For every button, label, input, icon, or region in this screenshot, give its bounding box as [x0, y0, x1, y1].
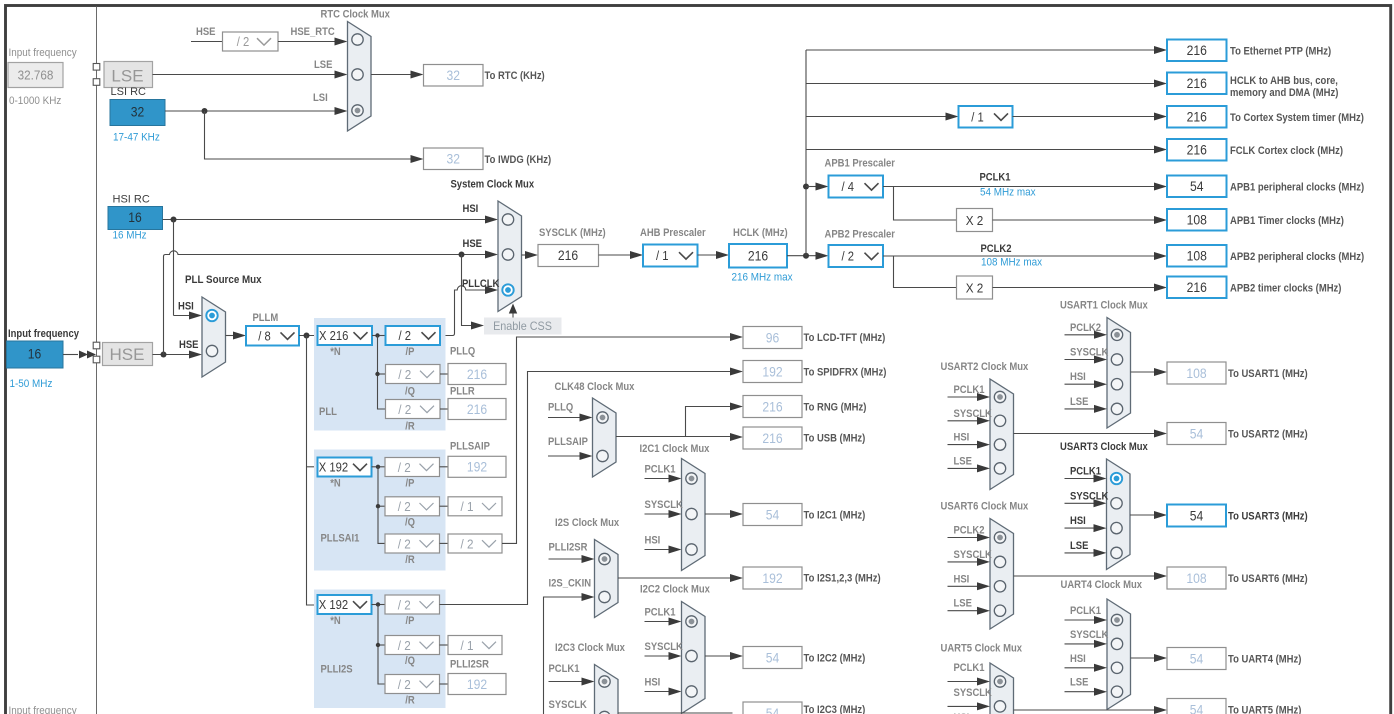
HSI RC source box 16 — [108, 207, 163, 230]
svg-text:HSE: HSE — [463, 238, 483, 250]
dropdown PLL /R — [386, 400, 441, 419]
svg-text:108: 108 — [1187, 213, 1207, 228]
junction PLL internal — [375, 333, 379, 337]
mux USART6 Clock Mux — [990, 519, 1014, 630]
dropdown PLLI2S /R — [385, 675, 440, 694]
wire to Ethernet PTP — [806, 49, 1156, 51]
value box 54 (To USART2 (MHz)) — [1167, 423, 1226, 445]
svg-text:/R: /R — [405, 421, 415, 433]
svg-text:HSI: HSI — [1070, 653, 1086, 665]
LSI RC source box 32 — [110, 100, 165, 126]
svg-text:X 192: X 192 — [319, 598, 348, 612]
mux System Clock Mux — [498, 201, 522, 312]
svg-text:To I2S1,2,3 (MHz): To I2S1,2,3 (MHz) — [804, 573, 881, 585]
svg-text:/P: /P — [406, 615, 415, 627]
svg-text:216: 216 — [762, 399, 782, 414]
wire HSI stub (USART1 Clock Mux) — [1065, 383, 1097, 385]
svg-text:X 192: X 192 — [319, 461, 348, 475]
svg-text:SYSCLK: SYSCLK — [954, 687, 992, 699]
value box HCLK 216 — [729, 244, 787, 268]
svg-text:54: 54 — [766, 706, 780, 714]
wire to Cortex divider — [806, 116, 948, 118]
wire HSI stub to I2C1 pin3 — [645, 549, 672, 551]
value box To USB 216 — [743, 427, 802, 449]
svg-text:HSE_RTC: HSE_RTC — [291, 26, 335, 38]
value box 54 (To USART3 (MHz)) — [1167, 505, 1226, 527]
wire PLLI2S Q to ext divider — [440, 644, 449, 646]
handle LSE bottom — [93, 79, 100, 86]
wire SYSCLK stub (UART5 Clock Mux) — [948, 705, 980, 707]
svg-text:16: 16 — [128, 210, 142, 225]
svg-text:PLLSAIP: PLLSAIP — [450, 441, 490, 453]
svg-text:To USART1 (MHz): To USART1 (MHz) — [1228, 368, 1308, 380]
wire AHB to HCLK — [698, 254, 719, 256]
svg-text:LSE: LSE — [954, 598, 972, 610]
wire RTC mux output to RTC box — [371, 74, 413, 76]
svg-text:X 216: X 216 — [319, 329, 348, 343]
svg-text:To UART4 (MHz): To UART4 (MHz) — [1228, 654, 1302, 666]
svg-text:HSI: HSI — [178, 301, 194, 313]
junction HSE split — [161, 352, 167, 358]
svg-text:CLK48 Clock Mux: CLK48 Clock Mux — [555, 381, 636, 393]
wire USART1 Clock Mux output — [1131, 371, 1157, 373]
svg-text:To Cortex System timer (MHz): To Cortex System timer (MHz) — [1230, 112, 1364, 124]
svg-text:Input frequency: Input frequency — [8, 328, 80, 340]
svg-text:APB2 timer clocks (MHz): APB2 timer clocks (MHz) — [1230, 283, 1342, 295]
svg-text:USART2 Clock Mux: USART2 Clock Mux — [941, 361, 1030, 373]
dropdown PLLSAI Q ext /1 — [448, 497, 502, 516]
value box To I2C3 54 — [743, 702, 802, 714]
svg-text:54: 54 — [1190, 508, 1204, 523]
wire PLLI2S internal vertical — [378, 605, 385, 685]
svg-text:SYSCLK: SYSCLK — [1070, 490, 1108, 502]
wire PLL Q to box — [440, 373, 448, 375]
svg-text:216 MHz max: 216 MHz max — [732, 272, 794, 284]
svg-text:HSE: HSE — [179, 339, 199, 351]
wire PCLK2 stub (USART1 Clock Mux) — [1065, 334, 1097, 336]
left rail vertical line — [96, 7, 98, 714]
svg-text:HSE: HSE — [110, 345, 145, 364]
wire HCLK bus vertical — [805, 50, 807, 256]
value box To IWDG 32 — [424, 148, 484, 170]
svg-text:54: 54 — [1190, 426, 1204, 441]
svg-text:UART4 Clock Mux: UART4 Clock Mux — [1061, 579, 1143, 591]
dropdown PLLM /8 — [246, 326, 299, 346]
svg-text:Enable CSS: Enable CSS — [493, 319, 552, 333]
wire PLLSAI P to box — [440, 466, 449, 468]
svg-text:96: 96 — [766, 330, 780, 345]
value box 54 (To UART4 (MHz)) — [1167, 648, 1226, 670]
wire HSE to PLL source mux pin2 — [153, 354, 192, 356]
dropdown /2 RTC divider — [223, 32, 279, 51]
input box 32.768 — [8, 63, 63, 88]
svg-text:SYSCLK: SYSCLK — [954, 549, 992, 561]
wire PLLSAIP stub to CLK48 pin2 — [548, 455, 582, 457]
wire PLLSAI internal vertical — [378, 467, 385, 544]
wire HSE_RTC to RTC mux pin1 — [278, 41, 337, 43]
wire PCLK1 stub (USART2 Clock Mux) — [948, 396, 980, 398]
svg-text:USART1 Clock Mux: USART1 Clock Mux — [1060, 300, 1149, 312]
value box 216 (APB2 timer clocks (MHz)) — [1167, 277, 1227, 299]
wire PLLI2S P to SPDIFRX — [440, 372, 733, 605]
svg-text:APB1 Timer clocks (MHz): APB1 Timer clocks (MHz) — [1230, 215, 1344, 227]
wire USART3 Clock Mux output — [1130, 514, 1157, 516]
wire PLL N to P — [372, 335, 386, 337]
wire SYSCLK stub (UART4 Clock Mux) — [1065, 643, 1097, 645]
svg-text:LSE: LSE — [1070, 540, 1088, 552]
svg-text:To Ethernet PTP (MHz): To Ethernet PTP (MHz) — [1230, 46, 1331, 58]
dropdown PLLSAI /P — [385, 458, 440, 477]
value box To RNG 216 — [743, 396, 802, 418]
svg-text:16: 16 — [28, 347, 42, 362]
X2 box APB1 — [957, 209, 993, 232]
dropdown PLLI2S xN X 192 — [318, 595, 372, 614]
junction PLLI2S internal — [376, 602, 380, 606]
svg-text:HSE: HSE — [196, 26, 216, 38]
svg-text:To SPIDFRX (MHz): To SPIDFRX (MHz) — [804, 367, 887, 379]
dropdown APB2 /2 — [829, 245, 884, 267]
svg-text:*N: *N — [330, 478, 341, 490]
value box PLLI2SR 192 — [448, 674, 506, 695]
dropdown PLL /P — [386, 326, 441, 345]
svg-text:HSI RC: HSI RC — [113, 194, 150, 206]
svg-text:/ 1: / 1 — [971, 110, 984, 124]
wire LSE stub (UART4 Clock Mux) — [1065, 691, 1097, 693]
svg-text:LSE: LSE — [314, 59, 332, 71]
mux USART1 Clock Mux — [1107, 318, 1131, 429]
svg-text:216: 216 — [467, 402, 487, 417]
junction LSI split — [202, 108, 208, 114]
wire LSE stub (USART3 Clock Mux) — [1065, 552, 1097, 554]
mux I2S Clock Mux — [595, 540, 619, 618]
mux I2C1 Clock Mux — [682, 459, 706, 571]
svg-text:216: 216 — [558, 248, 578, 263]
dropdown PLLSAI /R — [385, 534, 440, 553]
wire PLLSAI R to LCD-TFT — [502, 337, 733, 543]
svg-text:SYSCLK: SYSCLK — [645, 499, 683, 511]
svg-text:LSE: LSE — [1070, 677, 1088, 689]
svg-text:To USART2 (MHz): To USART2 (MHz) — [1228, 429, 1308, 441]
wire PLL source mux output to PLLM — [226, 335, 236, 337]
svg-text:AHB Prescaler: AHB Prescaler — [640, 227, 706, 239]
svg-text:HSI: HSI — [954, 432, 970, 444]
svg-text:PCLK2: PCLK2 — [981, 243, 1012, 255]
value box To I2C1 54 — [743, 504, 802, 526]
wire PLLI2SR stub to I2S pin1 — [549, 558, 585, 560]
wire LSE stub (USART1 Clock Mux) — [1065, 408, 1097, 410]
wire to APB1 X2 — [894, 187, 957, 221]
svg-text:HSI: HSI — [1070, 515, 1086, 527]
value box To RTC 32 — [424, 65, 484, 87]
wire to APB2 X2 — [894, 256, 957, 288]
svg-text:/ 2: / 2 — [398, 536, 411, 551]
wire HSI to System mux pin1 — [163, 219, 488, 221]
wire PLLCLK to system mux pin3 with hop — [440, 286, 488, 336]
svg-text:216: 216 — [1187, 143, 1207, 158]
svg-text:To USART3 (MHz): To USART3 (MHz) — [1228, 511, 1308, 523]
dropdown PLLI2S Q ext /1 — [448, 636, 502, 655]
svg-text:HSI: HSI — [463, 203, 479, 215]
svg-text:memory and DMA (MHz): memory and DMA (MHz) — [1230, 87, 1339, 99]
value box 54 (To UART5 (MHz)) — [1167, 699, 1226, 714]
arrow Enable CSS to mux — [512, 312, 514, 318]
wire SYSCLK to AHB prescaler — [599, 254, 633, 256]
svg-text:/ 4: / 4 — [842, 180, 855, 194]
svg-text:54: 54 — [766, 507, 780, 522]
wire PCLK1 stub to I2C3 pin1 — [549, 681, 585, 683]
svg-text:PLL: PLL — [319, 406, 337, 418]
junction HCLK bus — [803, 253, 809, 259]
svg-text:/ 1: / 1 — [656, 249, 669, 263]
svg-text:16 MHz: 16 MHz — [113, 230, 147, 242]
svg-text:HSI: HSI — [645, 535, 661, 547]
mux I2C2 Clock Mux — [682, 602, 706, 714]
svg-text:192: 192 — [762, 364, 782, 379]
wire SYSCLK stub (USART3 Clock Mux) — [1065, 502, 1097, 504]
value box PLLQ 216 — [448, 364, 506, 385]
svg-text:216: 216 — [467, 367, 487, 382]
svg-text:PLLQ: PLLQ — [450, 346, 476, 358]
svg-text:To UART5 (MHz): To UART5 (MHz) — [1228, 705, 1302, 714]
wire PLLSAI N to P — [372, 466, 386, 468]
svg-text:/R: /R — [405, 695, 415, 707]
svg-text:PLLI2S: PLLI2S — [321, 664, 353, 676]
dropdown PLLSAI xN X 192 — [318, 458, 372, 477]
wire I2S output — [618, 577, 733, 579]
svg-text:/ 2: / 2 — [398, 460, 411, 475]
svg-text:LSE: LSE — [111, 67, 143, 86]
svg-text:PLLI2SR: PLLI2SR — [450, 659, 489, 671]
wire UART4 Clock Mux output — [1131, 657, 1157, 659]
wire HSE vertical up to system mux with hop over HSI — [164, 251, 488, 355]
value box 216 (To Ethernet PTP (MHz)) — [1167, 40, 1227, 62]
panel PLLI2S — [314, 590, 446, 709]
wire CLK48 output to USB and RNG — [616, 407, 733, 437]
svg-text:I2S_CKIN: I2S_CKIN — [549, 578, 592, 590]
svg-text:/ 2: / 2 — [398, 402, 411, 417]
svg-text:/ 2: / 2 — [398, 597, 411, 612]
junction PLLI2S Q branch — [376, 643, 380, 647]
value box To LCD-TFT 96 — [743, 327, 802, 349]
wire APB2 to peripheral box — [883, 255, 1156, 257]
wire PCLK1 stub to I2C2 pin1 — [645, 621, 672, 623]
svg-text:PCLK1: PCLK1 — [549, 663, 580, 675]
junction HSE to CSS — [459, 252, 465, 258]
svg-text:54: 54 — [766, 650, 780, 665]
svg-text:X 2: X 2 — [966, 213, 984, 228]
svg-text:0-1000 KHz: 0-1000 KHz — [9, 95, 61, 107]
svg-text:Input frequency: Input frequency — [9, 705, 78, 714]
svg-text:17-47 KHz: 17-47 KHz — [113, 132, 160, 144]
wire I2C1 output — [705, 513, 733, 515]
svg-text:SYSCLK (MHz): SYSCLK (MHz) — [539, 227, 606, 239]
svg-text:SYSCLK: SYSCLK — [1070, 629, 1108, 641]
value box 108 (APB2 peripheral clocks (MHz)) — [1167, 245, 1227, 267]
dropdown APB1 /4 — [829, 176, 884, 198]
wire USART2 Clock Mux output — [1014, 433, 1157, 435]
junction PLLSAI Q branch — [376, 504, 380, 508]
svg-text:*N: *N — [330, 346, 341, 358]
svg-text:108: 108 — [1187, 249, 1207, 264]
wire to AHB bus clock — [806, 83, 1156, 85]
svg-text:APB2 Prescaler: APB2 Prescaler — [825, 229, 896, 241]
svg-text:X 2: X 2 — [966, 280, 984, 295]
wire PCLK2 stub (USART6 Clock Mux) — [948, 537, 980, 539]
svg-text:To LCD-TFT (MHz): To LCD-TFT (MHz) — [804, 332, 886, 344]
svg-text:/Q: /Q — [405, 517, 415, 529]
svg-text:PCLK1: PCLK1 — [980, 172, 1011, 184]
svg-text:RTC Clock Mux: RTC Clock Mux — [321, 9, 391, 21]
wire PCLK1 stub (UART5 Clock Mux) — [948, 681, 980, 683]
svg-text:To RTC (KHz): To RTC (KHz) — [485, 70, 545, 82]
svg-text:PCLK1: PCLK1 — [1070, 605, 1101, 617]
value box 108 (To USART6 (MHz)) — [1167, 567, 1226, 589]
svg-text:APB1 peripheral clocks (MHz): APB1 peripheral clocks (MHz) — [1230, 182, 1364, 194]
value box 216 (FCLK Cortex clock (MHz)) — [1167, 139, 1227, 161]
svg-text:APB1 Prescaler: APB1 Prescaler — [825, 158, 896, 170]
junction PLLM split — [304, 333, 310, 339]
svg-text:192: 192 — [467, 460, 487, 475]
mux USART3 Clock Mux — [1107, 459, 1131, 570]
panel PLLSAI1 — [314, 450, 446, 571]
wire PLLQ stub to CLK48 pin1 — [548, 417, 582, 419]
value box 216 (HCLK to AHB bus, core,) — [1167, 73, 1227, 95]
wire LSI to IWDG — [205, 111, 414, 159]
mux CLK48 Clock Mux — [593, 398, 617, 477]
wire HSI stub (USART6 Clock Mux) — [948, 585, 980, 587]
wire I2C2 output — [705, 655, 733, 657]
svg-text:/ 2: / 2 — [398, 677, 411, 692]
wire PLLI2S R to box — [440, 683, 449, 685]
svg-text:32: 32 — [447, 68, 461, 83]
wire SYSCLK stub (USART1 Clock Mux) — [1065, 359, 1097, 361]
svg-text:To RNG (MHz): To RNG (MHz) — [804, 402, 867, 414]
wire HSI vertical to PLL source mux — [173, 220, 175, 316]
HSE source box — [103, 343, 153, 366]
svg-text:108 MHz max: 108 MHz max — [981, 257, 1043, 269]
dropdown PLLSAI /Q — [385, 497, 440, 516]
svg-text:54: 54 — [1190, 651, 1204, 666]
svg-text:PLLQ: PLLQ — [548, 402, 574, 414]
wire HSE input arrows — [63, 354, 78, 356]
value box 108 (To USART1 (MHz)) — [1167, 362, 1226, 384]
wire APB1 to peripheral box — [883, 186, 1156, 188]
svg-text:192: 192 — [762, 571, 782, 586]
svg-text:216: 216 — [1187, 110, 1207, 125]
svg-text:PLLR: PLLR — [450, 386, 475, 398]
mux I2C3 Clock Mux — [595, 665, 619, 714]
svg-text:/Q: /Q — [405, 386, 415, 398]
svg-text:192: 192 — [467, 677, 487, 692]
panel PLL — [314, 318, 446, 431]
handle HSE bottom — [93, 356, 100, 363]
value box To I2S1,2,3 192 — [743, 567, 802, 589]
svg-text:32.768: 32.768 — [18, 68, 54, 83]
svg-text:LSE: LSE — [1070, 396, 1088, 408]
value box SYSCLK 216 — [538, 245, 599, 267]
wire HCLK to APB2 prescaler — [787, 255, 818, 257]
svg-text:To IWDG (KHz): To IWDG (KHz) — [485, 154, 552, 166]
svg-text:/ 2: / 2 — [461, 536, 474, 551]
svg-text:/ 2: / 2 — [399, 329, 412, 343]
wire LSE to RTC mux pin2 — [153, 74, 338, 76]
handle HSE top — [93, 342, 100, 349]
svg-text:SYSCLK: SYSCLK — [549, 699, 587, 711]
wire LSE stub (USART6 Clock Mux) — [948, 610, 980, 612]
Enable CSS button — [484, 318, 562, 335]
wire PLLM vertical to PLLSAI and PLLI2S — [307, 336, 318, 606]
dropdown PLLSAI R ext /2 — [448, 534, 502, 553]
dropdown PLL xN X 216 — [318, 326, 373, 345]
wire USART6 Clock Mux output — [1014, 575, 1157, 577]
wire CLK48 to USB — [686, 436, 733, 438]
svg-text:USART6 Clock Mux: USART6 Clock Mux — [941, 501, 1030, 513]
svg-text:To I2C3 (MHz): To I2C3 (MHz) — [804, 704, 866, 714]
svg-text:To I2C1 (MHz): To I2C1 (MHz) — [804, 510, 866, 522]
dropdown PLL /Q — [386, 365, 441, 384]
svg-text:/ 1: / 1 — [461, 638, 474, 653]
value box To I2C2 54 — [743, 647, 802, 669]
svg-text:/ 2: / 2 — [842, 250, 855, 264]
svg-text:APB2 peripheral clocks (MHz): APB2 peripheral clocks (MHz) — [1230, 251, 1364, 263]
svg-text:LSE: LSE — [954, 455, 972, 467]
wire I2C3 output — [618, 712, 733, 714]
svg-text:PLLSAI1: PLLSAI1 — [321, 533, 360, 545]
LSE source box — [104, 62, 153, 88]
value box 216 (To Cortex System timer (MHz)) — [1167, 106, 1227, 128]
wire LSI to RTC mux pin3 — [165, 110, 337, 112]
wire PLLSAI Q to ext divider — [440, 505, 449, 507]
junction PLLSAI internal — [376, 465, 380, 469]
svg-text:/ 2: / 2 — [398, 499, 411, 514]
value box PLLR 216 — [448, 399, 506, 420]
svg-text:HSI: HSI — [1070, 371, 1086, 383]
wire PLLM to PLL N — [299, 335, 318, 337]
wire PLLSAI R to ext divider — [440, 542, 449, 544]
svg-text:54: 54 — [1190, 702, 1204, 714]
value box To SPIDFRX 192 — [743, 361, 802, 383]
svg-text:PLLM: PLLM — [253, 312, 279, 324]
wire to APB1 prescaler — [806, 186, 818, 188]
wire UART5 Clock Mux output — [1014, 709, 1157, 711]
svg-text:HSI: HSI — [645, 677, 661, 689]
wire PLL R to box — [440, 408, 448, 410]
svg-text:HCLK (MHz): HCLK (MHz) — [733, 227, 788, 239]
svg-text:Input frequency: Input frequency — [9, 47, 78, 59]
svg-text:PCLK1: PCLK1 — [645, 607, 676, 619]
wire HSI stub to I2C2 pin3 — [645, 691, 672, 693]
mux UART5 Clock Mux — [990, 663, 1014, 714]
mux PLL Source Mux — [202, 297, 226, 377]
svg-text:/ 2: / 2 — [237, 35, 250, 49]
svg-text:I2S Clock Mux: I2S Clock Mux — [555, 517, 620, 529]
wire to FCLK — [806, 149, 1156, 151]
wire SYSCLK stub to I2C2 pin2 — [645, 655, 672, 657]
svg-text:/R: /R — [405, 554, 415, 566]
svg-text:216: 216 — [748, 249, 768, 264]
svg-text:/P: /P — [406, 346, 415, 358]
svg-text:UART5 Clock Mux: UART5 Clock Mux — [941, 643, 1023, 655]
wire PCLK1 stub (UART4 Clock Mux) — [1065, 619, 1097, 621]
wire SYSCLK stub (USART2 Clock Mux) — [948, 420, 980, 422]
svg-text:PLLSAIP: PLLSAIP — [548, 436, 588, 448]
junction APB1 — [803, 184, 809, 190]
svg-text:LSI RC: LSI RC — [111, 86, 147, 98]
dropdown AHB /1 — [643, 245, 698, 267]
svg-text:FCLK Cortex clock (MHz): FCLK Cortex clock (MHz) — [1230, 145, 1343, 157]
handle LSE top — [93, 64, 100, 71]
wire HSI stub (USART2 Clock Mux) — [948, 444, 980, 446]
